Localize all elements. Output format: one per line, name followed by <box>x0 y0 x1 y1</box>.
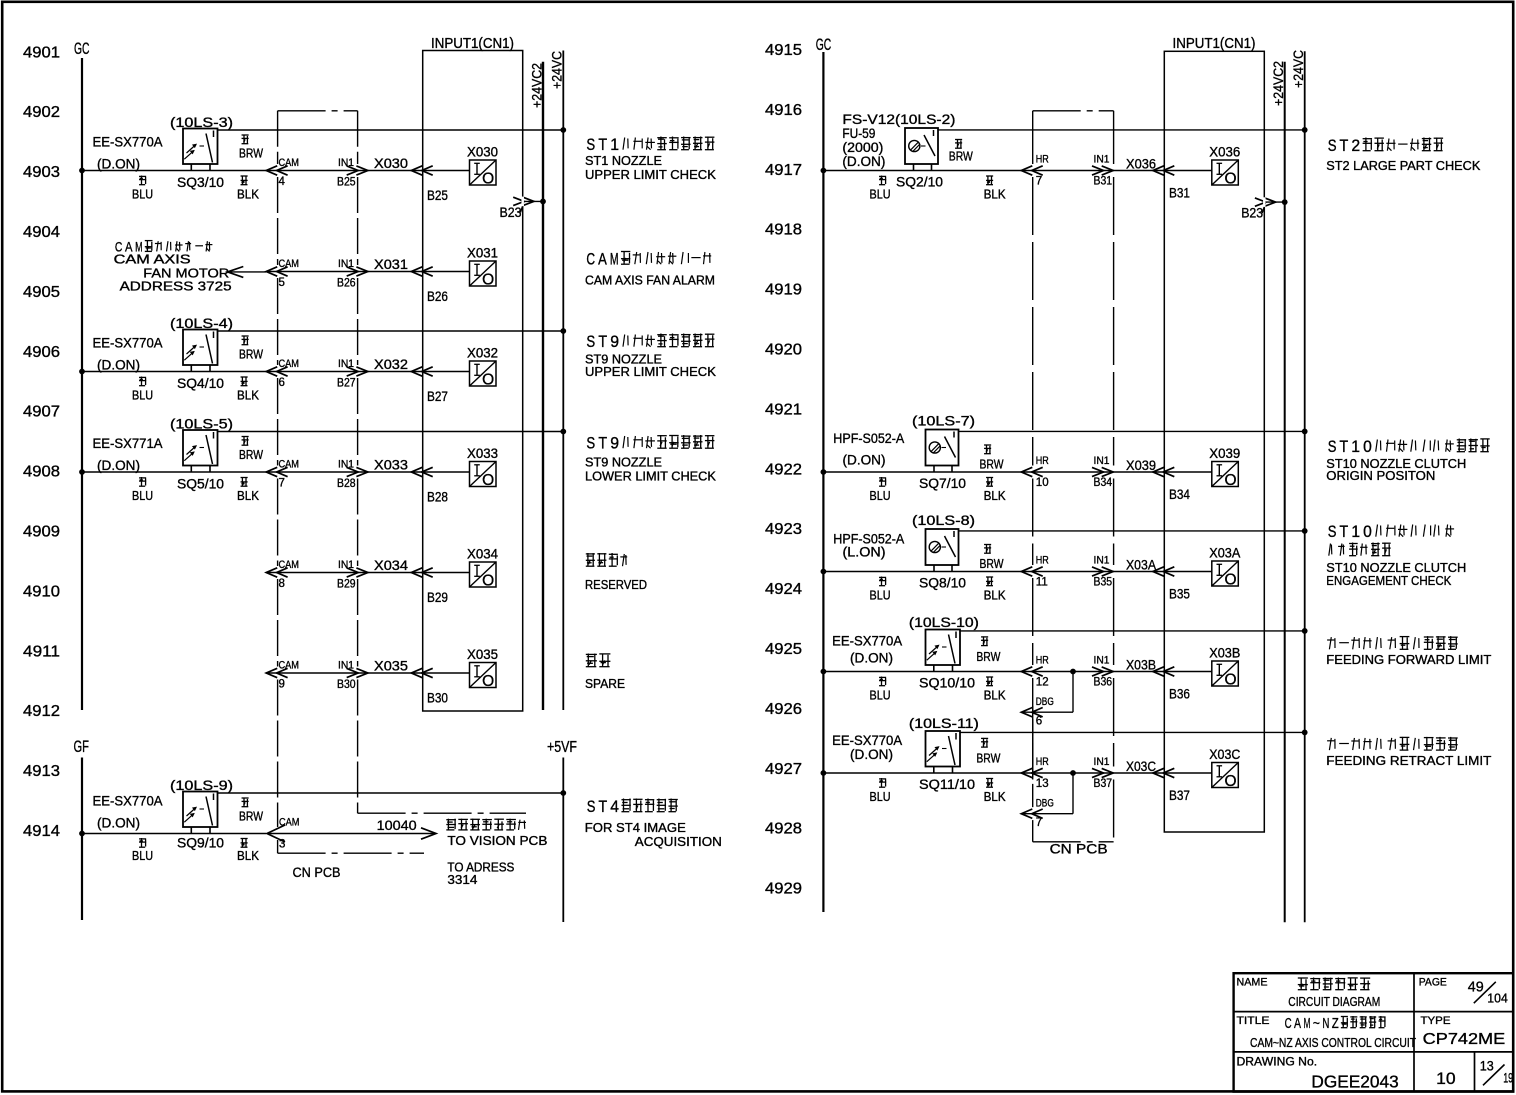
svg-text:ENGAGEMENT CHECK: ENGAGEMENT CHECK <box>1326 574 1452 588</box>
svg-text:4925: 4925 <box>765 641 802 658</box>
svg-text:X031: X031 <box>467 245 498 261</box>
svg-text:2: 2 <box>1351 137 1360 155</box>
svg-text:B31: B31 <box>1094 176 1113 188</box>
svg-text:4: 4 <box>610 798 619 816</box>
svg-text:NAME: NAME <box>1237 977 1268 989</box>
svg-text:SQ10/10: SQ10/10 <box>919 676 975 691</box>
svg-text:ST10 NOZZLE CLUTCH: ST10 NOZZLE CLUTCH <box>1326 561 1466 575</box>
svg-text:X030: X030 <box>467 144 498 160</box>
svg-text:FEEDING RETRACT LIMIT: FEEDING RETRACT LIMIT <box>1326 754 1491 768</box>
svg-text:BLK: BLK <box>237 389 260 403</box>
svg-text:4921: 4921 <box>765 401 802 418</box>
svg-text:BLU: BLU <box>870 790 891 804</box>
svg-text:EE-SX770A: EE-SX770A <box>832 733 902 748</box>
svg-text:1: 1 <box>610 136 619 154</box>
svg-text:1: 1 <box>1351 523 1360 541</box>
svg-text:B28: B28 <box>337 478 356 490</box>
svg-text:4918: 4918 <box>765 222 802 239</box>
svg-text:(10LS-9): (10LS-9) <box>170 778 233 793</box>
svg-text:EE-SX770A: EE-SX770A <box>93 794 163 809</box>
svg-text:X03B: X03B <box>1209 645 1240 661</box>
svg-text:O: O <box>482 673 494 690</box>
svg-text:IN1: IN1 <box>1094 455 1110 467</box>
svg-text:(10LS-4): (10LS-4) <box>170 316 233 331</box>
svg-text:ST2 LARGE PART CHECK: ST2 LARGE PART CHECK <box>1326 159 1481 173</box>
svg-text:UPPER LIMIT CHECK: UPPER LIMIT CHECK <box>585 168 717 182</box>
svg-text:3314: 3314 <box>447 873 477 887</box>
svg-text:B26: B26 <box>337 278 356 290</box>
svg-text:B30: B30 <box>427 690 448 706</box>
svg-text:4913: 4913 <box>23 763 60 780</box>
svg-text:13: 13 <box>1480 1059 1494 1074</box>
svg-text:IN1: IN1 <box>1094 756 1110 768</box>
svg-text:CN PCB: CN PCB <box>293 865 341 880</box>
svg-text:DGEE2043: DGEE2043 <box>1311 1071 1398 1091</box>
svg-text:S: S <box>1328 438 1337 456</box>
svg-text:4916: 4916 <box>765 102 802 119</box>
svg-text:X03C: X03C <box>1126 758 1156 774</box>
svg-text:BLU: BLU <box>870 689 891 703</box>
svg-text:4922: 4922 <box>765 461 802 478</box>
svg-text:T: T <box>598 136 607 154</box>
svg-text:9: 9 <box>610 435 619 453</box>
svg-text:EE-SX770A: EE-SX770A <box>93 135 163 150</box>
svg-text:BRW: BRW <box>239 810 263 824</box>
svg-text:X03C: X03C <box>1209 746 1240 762</box>
svg-text:DBG: DBG <box>1036 696 1054 708</box>
svg-text:TO VISION PCB: TO VISION PCB <box>447 834 547 848</box>
svg-text:7: 7 <box>1036 817 1042 829</box>
svg-text:X039: X039 <box>1209 445 1240 461</box>
svg-text:4928: 4928 <box>765 821 802 838</box>
svg-text:8: 8 <box>279 578 285 590</box>
svg-text:DRAWING No.: DRAWING No. <box>1237 1056 1318 1068</box>
svg-text:HR: HR <box>1036 154 1049 166</box>
svg-text:4: 4 <box>279 176 286 188</box>
svg-text:(10LS-5): (10LS-5) <box>170 417 233 432</box>
svg-text:CP742ME: CP742ME <box>1423 1031 1506 1048</box>
svg-text:(D.ON): (D.ON) <box>97 458 140 473</box>
svg-text:CAM: CAM <box>279 358 300 370</box>
svg-text:X036: X036 <box>1209 144 1240 160</box>
svg-text:X032: X032 <box>467 345 498 361</box>
svg-text:B37: B37 <box>1094 778 1113 790</box>
svg-text:ORIGIN POSITON: ORIGIN POSITON <box>1326 469 1435 483</box>
svg-text:IN1: IN1 <box>1094 555 1110 567</box>
svg-text:SQ4/10: SQ4/10 <box>177 376 224 391</box>
svg-text:HR: HR <box>1036 455 1049 467</box>
svg-text:S: S <box>586 435 595 453</box>
svg-text:BRW: BRW <box>976 752 1000 766</box>
svg-text:IN1: IN1 <box>338 157 354 169</box>
svg-text:IN1: IN1 <box>1094 655 1110 667</box>
svg-text:B26: B26 <box>427 288 448 304</box>
svg-text:BLU: BLU <box>132 489 153 503</box>
svg-text:CN PCB: CN PCB <box>1050 842 1108 857</box>
svg-text:HPF-S052-A: HPF-S052-A <box>833 431 904 446</box>
svg-text:BLU: BLU <box>870 188 891 202</box>
svg-text:B23: B23 <box>500 204 522 220</box>
svg-text:TYPE: TYPE <box>1421 1015 1451 1027</box>
svg-text:4901: 4901 <box>23 44 60 61</box>
svg-text:BRW: BRW <box>980 557 1004 571</box>
svg-text:Z: Z <box>1332 1016 1339 1032</box>
svg-text:ST1 NOZZLE: ST1 NOZZLE <box>585 154 662 168</box>
svg-text:B36: B36 <box>1094 677 1113 689</box>
svg-text:~: ~ <box>1313 1016 1320 1032</box>
svg-text:SQ5/10: SQ5/10 <box>177 477 224 492</box>
svg-text:BLU: BLU <box>870 589 891 603</box>
svg-text:4929: 4929 <box>765 881 802 898</box>
svg-text:CAM: CAM <box>279 459 300 471</box>
svg-text:4911: 4911 <box>23 643 60 660</box>
svg-text:T: T <box>598 333 607 351</box>
svg-text:4919: 4919 <box>765 282 802 299</box>
svg-text:X03A: X03A <box>1126 557 1157 573</box>
svg-text:10: 10 <box>1436 1069 1456 1088</box>
svg-text:O: O <box>1224 773 1236 790</box>
svg-text:M: M <box>610 251 619 269</box>
svg-text:BLK: BLK <box>984 689 1007 703</box>
svg-text:BRW: BRW <box>239 348 263 362</box>
svg-text:DBG: DBG <box>1036 798 1054 810</box>
svg-text:B28: B28 <box>427 489 448 505</box>
svg-text:CAM: CAM <box>279 258 300 270</box>
svg-text:B35: B35 <box>1094 577 1113 589</box>
svg-text:LOWER LIMIT CHECK: LOWER LIMIT CHECK <box>585 470 717 484</box>
svg-text:12: 12 <box>1036 677 1049 689</box>
svg-text:19: 19 <box>1503 1071 1513 1086</box>
svg-text:S: S <box>587 798 596 816</box>
svg-text:GF: GF <box>74 738 90 756</box>
svg-text:IN1: IN1 <box>1094 154 1110 166</box>
svg-text:N: N <box>1322 1016 1329 1032</box>
svg-text:(D.ON): (D.ON) <box>850 747 893 762</box>
svg-text:BLK: BLK <box>237 849 260 863</box>
svg-text:4902: 4902 <box>23 104 60 121</box>
svg-text:C: C <box>1285 1016 1292 1032</box>
svg-text:11: 11 <box>1036 577 1048 589</box>
svg-text:O: O <box>482 573 494 590</box>
svg-text:0: 0 <box>1363 523 1372 541</box>
svg-text:X033: X033 <box>467 445 498 461</box>
svg-text:BLU: BLU <box>132 849 153 863</box>
svg-text:GC: GC <box>816 36 832 54</box>
svg-text:CAM: CAM <box>279 157 300 169</box>
svg-text:104: 104 <box>1487 991 1508 1006</box>
svg-text:4923: 4923 <box>765 521 802 538</box>
svg-text:BLK: BLK <box>984 790 1007 804</box>
svg-text:GC: GC <box>74 40 90 58</box>
svg-text:4905: 4905 <box>23 284 60 301</box>
svg-text:X036: X036 <box>1126 156 1156 172</box>
svg-text:EE-SX770A: EE-SX770A <box>832 634 902 649</box>
svg-text:0: 0 <box>1363 438 1372 456</box>
svg-text:B29: B29 <box>337 579 356 591</box>
svg-text:4907: 4907 <box>23 404 60 421</box>
svg-text:B34: B34 <box>1094 477 1113 489</box>
svg-text:B27: B27 <box>337 378 356 390</box>
svg-text:9: 9 <box>610 333 619 351</box>
svg-text:X039: X039 <box>1126 457 1156 473</box>
svg-text:X030: X030 <box>374 155 408 171</box>
svg-text:1: 1 <box>1351 438 1360 456</box>
svg-text:T: T <box>599 798 608 816</box>
svg-text:49: 49 <box>1468 980 1484 996</box>
svg-text:(10LS-11): (10LS-11) <box>909 716 979 731</box>
svg-text:O: O <box>482 171 494 188</box>
svg-text:INPUT1(CN1): INPUT1(CN1) <box>1173 36 1256 52</box>
svg-text:FU-59: FU-59 <box>842 126 875 141</box>
svg-text:B30: B30 <box>337 679 356 691</box>
svg-text:(D.ON): (D.ON) <box>843 452 886 467</box>
svg-text:EE-SX771A: EE-SX771A <box>93 436 163 451</box>
svg-text:4926: 4926 <box>765 701 802 718</box>
svg-text:BLK: BLK <box>237 489 260 503</box>
svg-text:(10LS-8): (10LS-8) <box>912 513 975 528</box>
svg-text:BLU: BLU <box>870 489 891 503</box>
svg-text:IN1: IN1 <box>338 559 354 571</box>
svg-text:BLK: BLK <box>984 489 1007 503</box>
svg-text:FS-V12(10LS-2): FS-V12(10LS-2) <box>842 112 955 127</box>
svg-text:4924: 4924 <box>765 581 802 598</box>
svg-text:X031: X031 <box>374 256 408 272</box>
svg-text:ADDRESS 3725: ADDRESS 3725 <box>120 279 232 293</box>
svg-text:(10LS-10): (10LS-10) <box>909 615 979 630</box>
svg-text:B27: B27 <box>427 388 448 404</box>
svg-text:IN1: IN1 <box>338 358 354 370</box>
svg-text:SQ3/10: SQ3/10 <box>177 175 224 190</box>
svg-text:SQ11/10: SQ11/10 <box>919 777 975 792</box>
svg-text:7: 7 <box>279 478 285 490</box>
svg-text:4927: 4927 <box>765 761 802 778</box>
svg-text:(D.ON): (D.ON) <box>97 816 140 831</box>
svg-text:BLK: BLK <box>984 589 1007 603</box>
svg-text:CAM: CAM <box>279 660 300 672</box>
svg-text:BRW: BRW <box>976 650 1000 664</box>
svg-text:4909: 4909 <box>23 524 60 541</box>
svg-text:IN1: IN1 <box>338 258 354 270</box>
svg-text:SQ7/10: SQ7/10 <box>919 476 966 491</box>
svg-text:BLK: BLK <box>984 188 1007 202</box>
svg-text:IN1: IN1 <box>338 459 354 471</box>
svg-text:7: 7 <box>1036 176 1042 188</box>
svg-text:B31: B31 <box>1169 185 1190 201</box>
svg-text:TITLE: TITLE <box>1237 1015 1270 1027</box>
svg-text:+5VF: +5VF <box>547 739 577 756</box>
svg-text:10040: 10040 <box>377 818 417 833</box>
svg-text:CAM: CAM <box>279 817 300 829</box>
svg-text:CAM: CAM <box>279 559 300 571</box>
svg-text:CAM~NZ AXIS CONTROL CIRCUIT: CAM~NZ AXIS CONTROL CIRCUIT <box>1250 1035 1416 1050</box>
svg-text:A: A <box>1294 1016 1301 1032</box>
svg-text:O: O <box>1224 672 1236 689</box>
svg-text:B29: B29 <box>427 589 448 605</box>
svg-text:4904: 4904 <box>23 224 60 241</box>
svg-text:M: M <box>1303 1016 1310 1032</box>
svg-text:ACQUISITION: ACQUISITION <box>635 835 722 849</box>
svg-text:BLU: BLU <box>132 389 153 403</box>
svg-text:BRW: BRW <box>239 448 263 462</box>
svg-text:10: 10 <box>1036 477 1049 489</box>
svg-text:B25: B25 <box>427 187 448 203</box>
svg-text:C: C <box>586 251 595 269</box>
svg-text:B23: B23 <box>1241 205 1263 221</box>
svg-text:B25: B25 <box>337 177 356 189</box>
svg-text:INPUT1(CN1): INPUT1(CN1) <box>431 36 514 52</box>
svg-text:5: 5 <box>279 277 285 289</box>
svg-text:B36: B36 <box>1169 686 1190 702</box>
svg-text:O: O <box>1224 171 1236 188</box>
svg-text:(D.ON): (D.ON) <box>842 154 885 169</box>
svg-text:CAM AXIS FAN ALARM: CAM AXIS FAN ALARM <box>585 274 715 288</box>
svg-text:X034: X034 <box>374 557 408 573</box>
svg-text:X032: X032 <box>374 356 408 372</box>
svg-text:CIRCUIT DIAGRAM: CIRCUIT DIAGRAM <box>1288 994 1380 1009</box>
svg-text:(10LS-3): (10LS-3) <box>170 115 233 130</box>
svg-text:B34: B34 <box>1169 486 1190 502</box>
svg-text:4915: 4915 <box>765 42 802 59</box>
svg-text:IN1: IN1 <box>338 660 354 672</box>
svg-text:T: T <box>1340 523 1349 541</box>
svg-text:BLK: BLK <box>237 188 260 202</box>
svg-text:S: S <box>1328 137 1337 155</box>
svg-text:+24VC2: +24VC2 <box>1270 61 1286 106</box>
svg-text:EE-SX770A: EE-SX770A <box>93 336 163 351</box>
svg-text:T: T <box>1340 438 1349 456</box>
svg-text:4908: 4908 <box>23 464 60 481</box>
svg-text:4917: 4917 <box>765 162 802 179</box>
svg-text:O: O <box>1224 572 1236 589</box>
svg-text:+24VC: +24VC <box>549 51 565 89</box>
svg-text:FAN MOTOR: FAN MOTOR <box>143 266 229 280</box>
svg-text:SQ8/10: SQ8/10 <box>919 576 966 591</box>
svg-text:6: 6 <box>1036 716 1042 728</box>
svg-text:4906: 4906 <box>23 344 60 361</box>
svg-text:UPPER LIMIT CHECK: UPPER LIMIT CHECK <box>585 365 717 379</box>
svg-text:B35: B35 <box>1169 586 1190 602</box>
svg-text:FEEDING FORWARD LIMIT: FEEDING FORWARD LIMIT <box>1326 653 1491 667</box>
svg-text:(2000): (2000) <box>842 140 883 155</box>
svg-text:9: 9 <box>279 679 285 691</box>
svg-text:A: A <box>598 251 607 269</box>
svg-text:X034: X034 <box>467 546 498 562</box>
svg-text:T: T <box>598 435 607 453</box>
svg-text:FOR ST4 IMAGE: FOR ST4 IMAGE <box>585 821 686 835</box>
svg-text:BRW: BRW <box>980 458 1004 472</box>
svg-text:O: O <box>1224 472 1236 489</box>
svg-text:4920: 4920 <box>765 342 802 359</box>
svg-text:O: O <box>482 472 494 489</box>
svg-text:X03A: X03A <box>1209 545 1241 561</box>
svg-text:(10LS-7): (10LS-7) <box>912 414 975 429</box>
svg-text:X035: X035 <box>374 658 408 674</box>
svg-text:S: S <box>586 333 595 351</box>
svg-text:HR: HR <box>1036 655 1049 667</box>
svg-text:(D.ON): (D.ON) <box>97 358 140 373</box>
svg-text:ST9 NOZZLE: ST9 NOZZLE <box>585 456 662 470</box>
svg-text:13: 13 <box>1036 778 1049 790</box>
svg-text:6: 6 <box>279 377 285 389</box>
svg-text:+24VC: +24VC <box>1290 50 1306 88</box>
svg-text:4910: 4910 <box>23 583 60 600</box>
svg-text:BRW: BRW <box>239 147 263 161</box>
svg-text:X035: X035 <box>467 646 498 662</box>
svg-text:HR: HR <box>1036 756 1049 768</box>
svg-text:SQ9/10: SQ9/10 <box>177 836 224 851</box>
svg-text:T: T <box>1340 137 1349 155</box>
svg-text:S: S <box>586 136 595 154</box>
svg-text:PAGE: PAGE <box>1419 977 1447 989</box>
svg-text:HR: HR <box>1036 555 1049 567</box>
svg-text:RESERVED: RESERVED <box>585 578 647 592</box>
svg-text:(D.ON): (D.ON) <box>97 157 140 172</box>
svg-text:SPARE: SPARE <box>585 677 625 691</box>
svg-text:CAM AXIS: CAM AXIS <box>114 253 191 267</box>
svg-text:BRW: BRW <box>949 149 973 163</box>
svg-text:4912: 4912 <box>23 703 60 720</box>
svg-text:O: O <box>482 272 494 289</box>
svg-text:4914: 4914 <box>23 823 60 840</box>
svg-text:3: 3 <box>279 839 285 851</box>
svg-text:(L.ON): (L.ON) <box>843 545 886 560</box>
svg-text:BLU: BLU <box>132 188 153 202</box>
svg-text:(D.ON): (D.ON) <box>850 650 893 665</box>
svg-text:X03B: X03B <box>1126 657 1156 673</box>
svg-text:X033: X033 <box>374 457 408 473</box>
svg-text:O: O <box>482 372 494 389</box>
svg-text:B37: B37 <box>1169 787 1190 803</box>
svg-text:4903: 4903 <box>23 164 60 181</box>
svg-text:SQ2/10: SQ2/10 <box>896 175 943 190</box>
svg-text:S: S <box>1328 523 1337 541</box>
svg-text:+24VC2: +24VC2 <box>528 63 544 108</box>
